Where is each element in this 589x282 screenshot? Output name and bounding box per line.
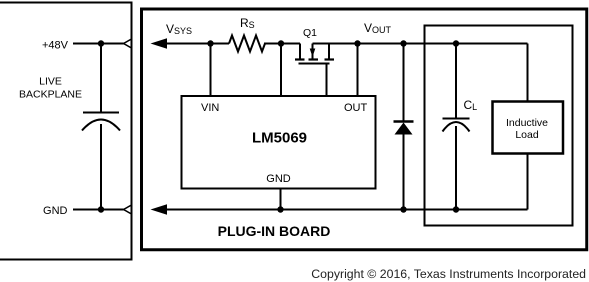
node diode bottom junction <box>400 206 406 212</box>
plug-in board box <box>142 9 587 250</box>
svg-text:VOUT: VOUT <box>364 21 392 35</box>
op-amp U1 LM5069 box <box>182 96 376 189</box>
svg-text:PLUG-IN BOARD: PLUG-IN BOARD <box>218 223 331 239</box>
svg-text:+48V: +48V <box>42 40 69 52</box>
svg-text:CL: CL <box>464 98 478 112</box>
wire load top lead <box>527 44 529 102</box>
transistor Q1 (MOSFET) <box>295 44 334 64</box>
svg-text:VSYS: VSYS <box>166 22 192 36</box>
wire backplane GND rail <box>73 209 124 211</box>
capacitor CL (curved bottom plate) <box>443 122 470 132</box>
node OUT junction <box>354 40 360 46</box>
node CL bottom junction <box>453 206 459 212</box>
svg-text:Load: Load <box>515 129 539 141</box>
connector symbol GND (open arrowhead) <box>124 205 132 214</box>
capacitor CL (top plate) <box>443 118 470 120</box>
node VIN junction <box>207 40 213 46</box>
svg-text:LM5069: LM5069 <box>252 130 307 147</box>
wire GND pin <box>280 189 282 210</box>
svg-text:GND: GND <box>266 173 291 185</box>
svg-text:BACKPLANE: BACKPLANE <box>19 89 82 101</box>
wire VIN pin <box>210 44 212 97</box>
wire RS to Q1 <box>264 43 300 45</box>
wire backplane cap top lead <box>100 44 102 113</box>
wire +48V rail <box>73 43 124 45</box>
capacitor backplane bulk (top plate) <box>83 112 119 114</box>
capacitor backplane bulk (curved bottom plate) <box>82 120 120 131</box>
svg-text:OUT: OUT <box>344 102 368 114</box>
svg-text:VIN: VIN <box>201 102 219 114</box>
wire CL bottom lead <box>455 126 457 210</box>
label LIVE BACKPLANE <box>19 76 82 101</box>
copyright note <box>0 268 586 280</box>
node GND pin junction <box>277 206 283 212</box>
load board box <box>425 26 573 226</box>
wire load bottom lead <box>527 154 529 210</box>
node CL top junction <box>453 40 459 46</box>
wire VOUT rail <box>313 43 528 45</box>
wire VSYS arrow <box>151 38 230 48</box>
wire board GND rail with arrow <box>151 204 528 214</box>
wire backplane cap bottom lead <box>100 124 102 210</box>
node GND junction <box>98 206 104 212</box>
wire sense pin <box>280 44 282 97</box>
connector symbol +48V (open arrowhead) <box>124 39 132 48</box>
node sense junction <box>278 40 284 46</box>
wire Q1 gate to LM5069 <box>326 64 328 97</box>
live backplane box <box>0 3 132 260</box>
label Inductive Load <box>506 117 548 141</box>
svg-text:Q1: Q1 <box>303 27 317 39</box>
svg-text:Inductive: Inductive <box>506 117 548 129</box>
node diode top junction <box>400 40 406 46</box>
wire CL top lead <box>455 44 457 119</box>
wire OUT pin <box>357 44 359 97</box>
svg-text:LIVE: LIVE <box>39 76 62 88</box>
resistor RS <box>229 36 265 52</box>
node +48V junction <box>98 40 104 46</box>
svg-text:GND: GND <box>43 205 68 217</box>
svg-text:RS: RS <box>240 16 255 30</box>
inductive load box <box>493 102 564 154</box>
diode D1 <box>394 44 414 210</box>
